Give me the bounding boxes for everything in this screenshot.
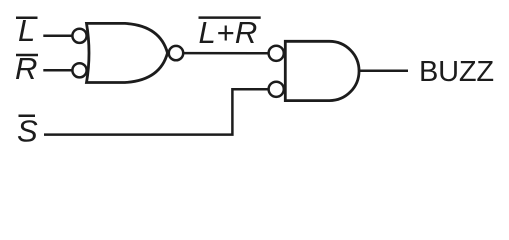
svg-text:L+R: L+R xyxy=(199,15,258,50)
wire S input (runs right then up to AND lower input) xyxy=(44,89,269,134)
wire AND output xyxy=(359,70,408,73)
wire R input xyxy=(43,69,72,72)
svg-text:BUZZ: BUZZ xyxy=(419,56,494,88)
input label S (active-low, overbar) xyxy=(17,113,38,148)
wire L input xyxy=(43,35,72,38)
input label L (active-low, overbar) xyxy=(16,13,38,48)
svg-text:S: S xyxy=(17,113,38,148)
inversion bubble OR input bottom xyxy=(72,63,86,77)
inversion bubble AND input bottom xyxy=(269,82,284,97)
net label L+R (overbar) xyxy=(199,15,261,50)
inversion bubble OR output xyxy=(169,46,183,60)
AND gate body (with inverted inputs) xyxy=(285,41,359,100)
inversion bubble OR input top xyxy=(72,29,86,43)
wire OR output to AND input xyxy=(183,52,269,55)
input label R (active-low, overbar) xyxy=(15,51,38,86)
OR gate body (negative-input OR = NOR function) xyxy=(87,23,168,82)
inversion bubble AND input top xyxy=(269,46,284,61)
